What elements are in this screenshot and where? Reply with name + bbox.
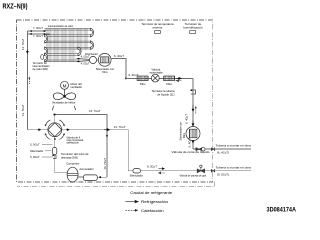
motorized valve [151,74,159,82]
label: Termistor de temperatura exterior [142,22,174,30]
svg-text:13, 7CuT: 13, 7CuT [21,104,25,116]
svg-text:7, 9CuT: 7, 9CuT [33,26,43,30]
svg-text:Válvula de corte de líquido: Válvula de corte de líquido [172,150,211,154]
right U-bends [78,28,94,56]
svg-text:exterior: exterior [152,25,162,29]
svg-text:5, 9CuT: 5, 9CuT [30,155,40,159]
pipe gas field [213,170,251,172]
pipe liquid field [213,148,251,150]
pipe: left vertical main [26,31,28,130]
svg-text:4, 0CuT: 4, 0CuT [81,63,90,66]
pipe silencer to liquid drop [111,58,126,78]
svg-text:5, 9CuT: 5, 9CuT [30,142,40,146]
svg-text:(9, 5CuT): (9, 5CuT) [217,172,229,176]
svg-text:RXZ–N(9): RXZ–N(9) [3,1,28,10]
svg-text:Acumulador: Acumulador [79,167,93,171]
svg-text:10, 7CuT: 10, 7CuT [103,158,107,170]
coil thermistor pocket [41,55,44,60]
pipe accumulator to suction [97,176,107,178]
label: Termistor de humidificacion [183,22,203,30]
dashed flow arrow up liquid [195,108,197,114]
fins block upper [46,28,88,49]
flow arrow down liquid [192,105,194,111]
fan motor [61,81,69,89]
pipe: left main to 4-way valve [27,129,48,131]
flare joint gas [211,169,215,172]
flow arrows gas line [159,168,165,170]
flow arrows liquid line [176,77,181,79]
accumulator [83,175,97,181]
svg-text:13, 7CuT: 13, 7CuT [21,38,25,50]
junction dot [125,78,127,80]
pipe 4wv bottom to compressor [55,137,68,173]
dashed flow arrow up on left pipe [28,78,30,84]
svg-text:Válvula de parada de gas: Válvula de parada de gas [180,174,207,177]
svg-text:Calefacción: Calefacción [141,209,164,213]
propeller fan [52,93,75,110]
fan shaft [64,89,66,95]
filter 1 [137,76,148,81]
svg-text:3D084174A: 3D084174A [267,207,297,214]
svg-text:13, 7CuT: 13, 7CuT [89,109,101,113]
svg-text:6, 4CuT: 6, 4CuT [114,54,124,58]
4wv curved arrows [45,120,64,140]
svg-text:Tubería a montar en obra: Tubería a montar en obra [216,144,252,148]
label Valvula de 4 vias conectada calefaccion [66,137,83,145]
filter 2 [164,76,175,81]
heat exchanger coil [45,28,94,62]
coil outlet pipes to distributor [77,59,90,62]
compressor [67,167,78,182]
svg-text:motorizada: motorizada [149,71,163,75]
svg-text:Distribuidor: Distribuidor [85,53,98,56]
gas line bottom [128,170,213,172]
svg-text:Refrigeración: Refrigeración [141,200,168,204]
svg-text:de calor (DB): de calor (DB) [33,67,48,71]
svg-text:6, 4CuT: 6, 4CuT [188,137,192,147]
legend [126,191,173,213]
4-way valve [48,123,62,137]
liquid pipe thermistor bracket [191,90,195,94]
svg-text:Intercambiador de calor: Intercambiador de calor [48,24,73,28]
thermistor symbol (humidifier) [190,30,196,33]
pipe: coil inlet 1 [27,30,46,32]
distributor [89,56,96,63]
outer boundary offset line [17,182,215,187]
pipe liquid vertical [192,78,194,149]
flare joint liquid [211,148,215,151]
silencer with filter (coil exit) [98,53,111,66]
svg-text:(6, 4CuT): (6, 4CuT) [217,151,229,155]
unit boundary dashed box [17,20,213,182]
svg-text:9, 5CuT: 9, 5CuT [147,165,157,169]
flow arrow into silencer [192,121,194,127]
pipe 4wv top to suction header [55,115,107,178]
svg-text:Caudal de refrigerante: Caudal de refrigerante [130,191,172,195]
svg-text:filtro: filtro [182,132,186,138]
svg-text:7, 9CuT: 7, 9CuT [33,34,43,38]
thermistor symbol (outdoor temp) [155,30,161,33]
left U-bends [45,34,48,62]
flow arrow at crossing [104,128,110,131]
legend dashed arrow [126,209,137,211]
svg-text:descarga (DIS): descarga (DIS) [61,155,78,159]
svg-text:Ventilador de hélice: Ventilador de hélice [52,100,76,104]
svg-text:Filtro: Filtro [140,82,146,86]
4wv bottom dot [54,138,56,140]
pipe: coil inlet 2 [27,33,49,35]
silencer with filter (liquid) [186,127,200,141]
gas muffler [133,169,141,173]
svg-text:Filtro: Filtro [166,82,172,86]
svg-text:ventilador: ventilador [71,85,83,89]
coil tube rows (thin double lines) [45,29,91,62]
svg-text:calefacción: calefacción [66,142,79,145]
svg-text:13, 7CuT: 13, 7CuT [114,125,126,129]
fins block lower [46,50,76,63]
liquid stop valve [196,148,205,151]
pipe compressor to accumulator [78,176,84,178]
junction dots coil inlets [31,30,46,34]
svg-text:Silenciador: Silenciador [30,149,43,153]
label: Termistor de intercambiador de calor (DB) [33,61,50,71]
svg-text:humidificación: humidificación [183,25,203,29]
gas stop valve [197,165,204,173]
pipe distributor to silencer [97,59,99,61]
svg-text:Silenciador: Silenciador [130,174,143,178]
pipe liquid to stop valve [193,148,213,150]
legend solid arrow [126,200,139,203]
svg-text:M: M [63,83,67,88]
flow arrow into 4wv [38,129,41,131]
svg-text:Tubería a montar en obra: Tubería a montar en obra [216,165,252,169]
flow arrow down on left pipe [26,50,28,54]
junction dot on suction line [106,135,108,137]
svg-text:6, 4CuT: 6, 4CuT [185,114,189,124]
svg-text:de líquido (3L): de líquido (3L) [157,92,174,96]
flow arrow below silencer [192,140,194,143]
discharge muffler [52,147,56,154]
svg-text:filtro: filtro [102,70,108,74]
discharge thermistor bracket [53,155,56,158]
corner dot [54,114,56,116]
pipe liquid horizontal [126,77,193,79]
pipe 4wv right to gas line [62,130,129,171]
svg-text:Compresor: Compresor [66,161,79,165]
